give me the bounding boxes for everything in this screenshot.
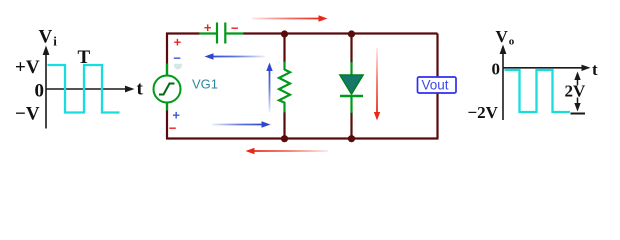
diode D1 triangle xyxy=(340,75,363,94)
node junction dot resistor bottom xyxy=(281,135,288,142)
wire diode branch vertical lower xyxy=(350,112,352,139)
current arrow red vertical (downward, beside diode) xyxy=(374,48,380,121)
diode D1 anode lead xyxy=(350,62,352,76)
svg-text:VG1: VG1 xyxy=(192,77,218,92)
svg-text:+: + xyxy=(174,34,182,49)
right graph output square wave xyxy=(505,70,571,112)
wire diode branch vertical upper xyxy=(350,34,352,64)
resistor R1 leads xyxy=(283,62,285,113)
current arrow blue top (leftward) xyxy=(205,53,266,59)
svg-text:−: − xyxy=(173,51,181,66)
capacitor C1 plates xyxy=(217,23,225,44)
svg-text:Vout: Vout xyxy=(422,77,449,92)
wire top from capacitor to top-right corner xyxy=(243,32,438,34)
wire resistor branch vertical lower xyxy=(283,112,285,139)
current arrow red top (rightward) xyxy=(252,15,328,21)
svg-text:t: t xyxy=(137,79,144,100)
svg-text:2V: 2V xyxy=(565,82,587,101)
-2V level tick mark xyxy=(571,113,586,115)
left graph input square wave xyxy=(48,65,120,113)
voltage source VG1 leads xyxy=(166,64,168,111)
svg-text:0: 0 xyxy=(492,60,501,79)
wire resistor branch vertical upper xyxy=(283,34,285,63)
current arrow blue vertical (upward) xyxy=(266,63,272,113)
node junction dot resistor top xyxy=(281,30,288,37)
voltage source VG1 body xyxy=(154,76,181,103)
wire right edge xyxy=(436,34,438,139)
svg-text:−V: −V xyxy=(15,104,40,125)
svg-text:−: − xyxy=(169,120,177,135)
amplitude dimension arrow 2V xyxy=(574,72,580,112)
wire top-left corner to capacitor xyxy=(167,34,200,139)
svg-text:+V: +V xyxy=(15,57,40,78)
right graph t horizontal axis xyxy=(503,65,591,71)
diode D1 cathode lead xyxy=(350,96,352,113)
svg-text:0: 0 xyxy=(35,81,45,102)
Vout net label box xyxy=(418,77,457,93)
svg-text:−: − xyxy=(231,20,239,35)
capacitor C1 leads xyxy=(199,32,244,34)
svg-text:−2V: −2V xyxy=(468,103,499,122)
voltage source VG1 waveform symbol xyxy=(159,84,175,95)
current arrow blue bottom (rightward) xyxy=(212,121,271,127)
diode D1 cathode bar xyxy=(340,95,363,97)
current arrow red bottom (leftward) xyxy=(246,148,329,154)
right graph Vo vertical axis xyxy=(500,45,507,121)
node junction dot diode bottom xyxy=(348,135,355,142)
left graph t horizontal axis xyxy=(46,86,135,93)
highlight blob near source xyxy=(174,64,182,70)
node junction dot diode top xyxy=(348,30,355,37)
left graph Vi vertical axis xyxy=(43,46,50,129)
svg-text:t: t xyxy=(592,60,598,79)
wire bottom xyxy=(166,137,439,139)
resistor R1 zigzag body xyxy=(279,70,290,103)
svg-text:Vo: Vo xyxy=(496,27,515,48)
svg-text:+: + xyxy=(204,20,212,35)
svg-text:Vi: Vi xyxy=(39,27,58,49)
